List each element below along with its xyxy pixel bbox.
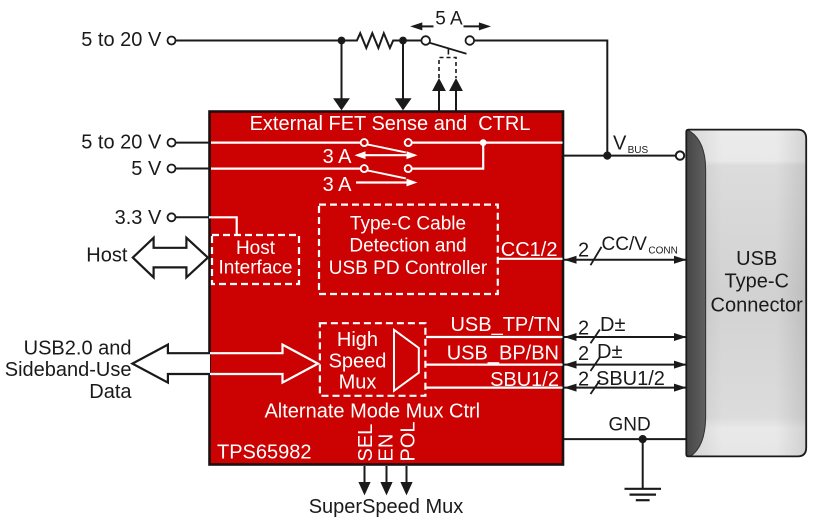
svg-text:GND: GND xyxy=(609,415,651,436)
svg-text:BUS: BUS xyxy=(628,145,649,156)
svg-text:POL: POL xyxy=(397,421,419,461)
svg-text:SBU1/2: SBU1/2 xyxy=(596,368,665,390)
svg-text:CC1/2: CC1/2 xyxy=(501,239,558,261)
svg-text:CC/V: CC/V xyxy=(602,234,648,255)
svg-text:2: 2 xyxy=(578,369,589,391)
svg-text:SBU1/2: SBU1/2 xyxy=(490,369,559,391)
svg-text:3.3 V: 3.3 V xyxy=(115,207,162,229)
svg-text:EN: EN xyxy=(376,434,398,462)
svg-text:USB: USB xyxy=(736,248,777,270)
svg-text:TPS65982: TPS65982 xyxy=(217,441,312,463)
svg-text:3 A: 3 A xyxy=(323,174,353,196)
svg-text:2: 2 xyxy=(578,239,589,261)
svg-text:5 to 20 V: 5 to 20 V xyxy=(81,29,162,51)
svg-text:USB_BP/BN: USB_BP/BN xyxy=(447,342,559,364)
svg-text:USB PD Controller: USB PD Controller xyxy=(329,258,488,279)
svg-text:Host: Host xyxy=(86,245,128,267)
svg-text:CONN: CONN xyxy=(648,246,677,257)
svg-text:V: V xyxy=(613,133,627,155)
svg-text:SuperSpeed Mux: SuperSpeed Mux xyxy=(309,496,464,518)
svg-text:2: 2 xyxy=(578,318,589,340)
svg-text:Host: Host xyxy=(236,238,276,259)
svg-text:5 V: 5 V xyxy=(131,158,162,180)
svg-text:High: High xyxy=(337,329,378,351)
svg-text:Connector: Connector xyxy=(711,294,804,316)
svg-text:D±: D± xyxy=(597,341,622,363)
svg-text:External FET Sense and CTRL: External FET Sense and CTRL xyxy=(250,113,531,135)
svg-text:D±: D± xyxy=(600,314,625,336)
svg-text:Mux: Mux xyxy=(339,372,377,394)
svg-text:Data: Data xyxy=(89,381,132,403)
svg-text:Type-C: Type-C xyxy=(724,271,788,293)
svg-text:Detection and: Detection and xyxy=(349,235,466,256)
svg-text:USB2.0 and: USB2.0 and xyxy=(24,337,132,359)
svg-text:USB_TP/TN: USB_TP/TN xyxy=(450,314,560,336)
svg-text:5 A: 5 A xyxy=(435,8,463,29)
svg-text:5 to 20 V: 5 to 20 V xyxy=(81,132,162,154)
svg-text:Sideband-Use: Sideband-Use xyxy=(5,359,132,381)
svg-text:3 A: 3 A xyxy=(323,146,353,168)
svg-text:2: 2 xyxy=(578,343,589,365)
svg-text:Interface: Interface xyxy=(219,258,293,279)
svg-text:Alternate Mode Mux Ctrl: Alternate Mode Mux Ctrl xyxy=(264,400,480,422)
svg-text:Speed: Speed xyxy=(329,350,387,372)
svg-text:Type-C Cable: Type-C Cable xyxy=(350,213,466,234)
svg-text:SEL: SEL xyxy=(355,424,377,462)
